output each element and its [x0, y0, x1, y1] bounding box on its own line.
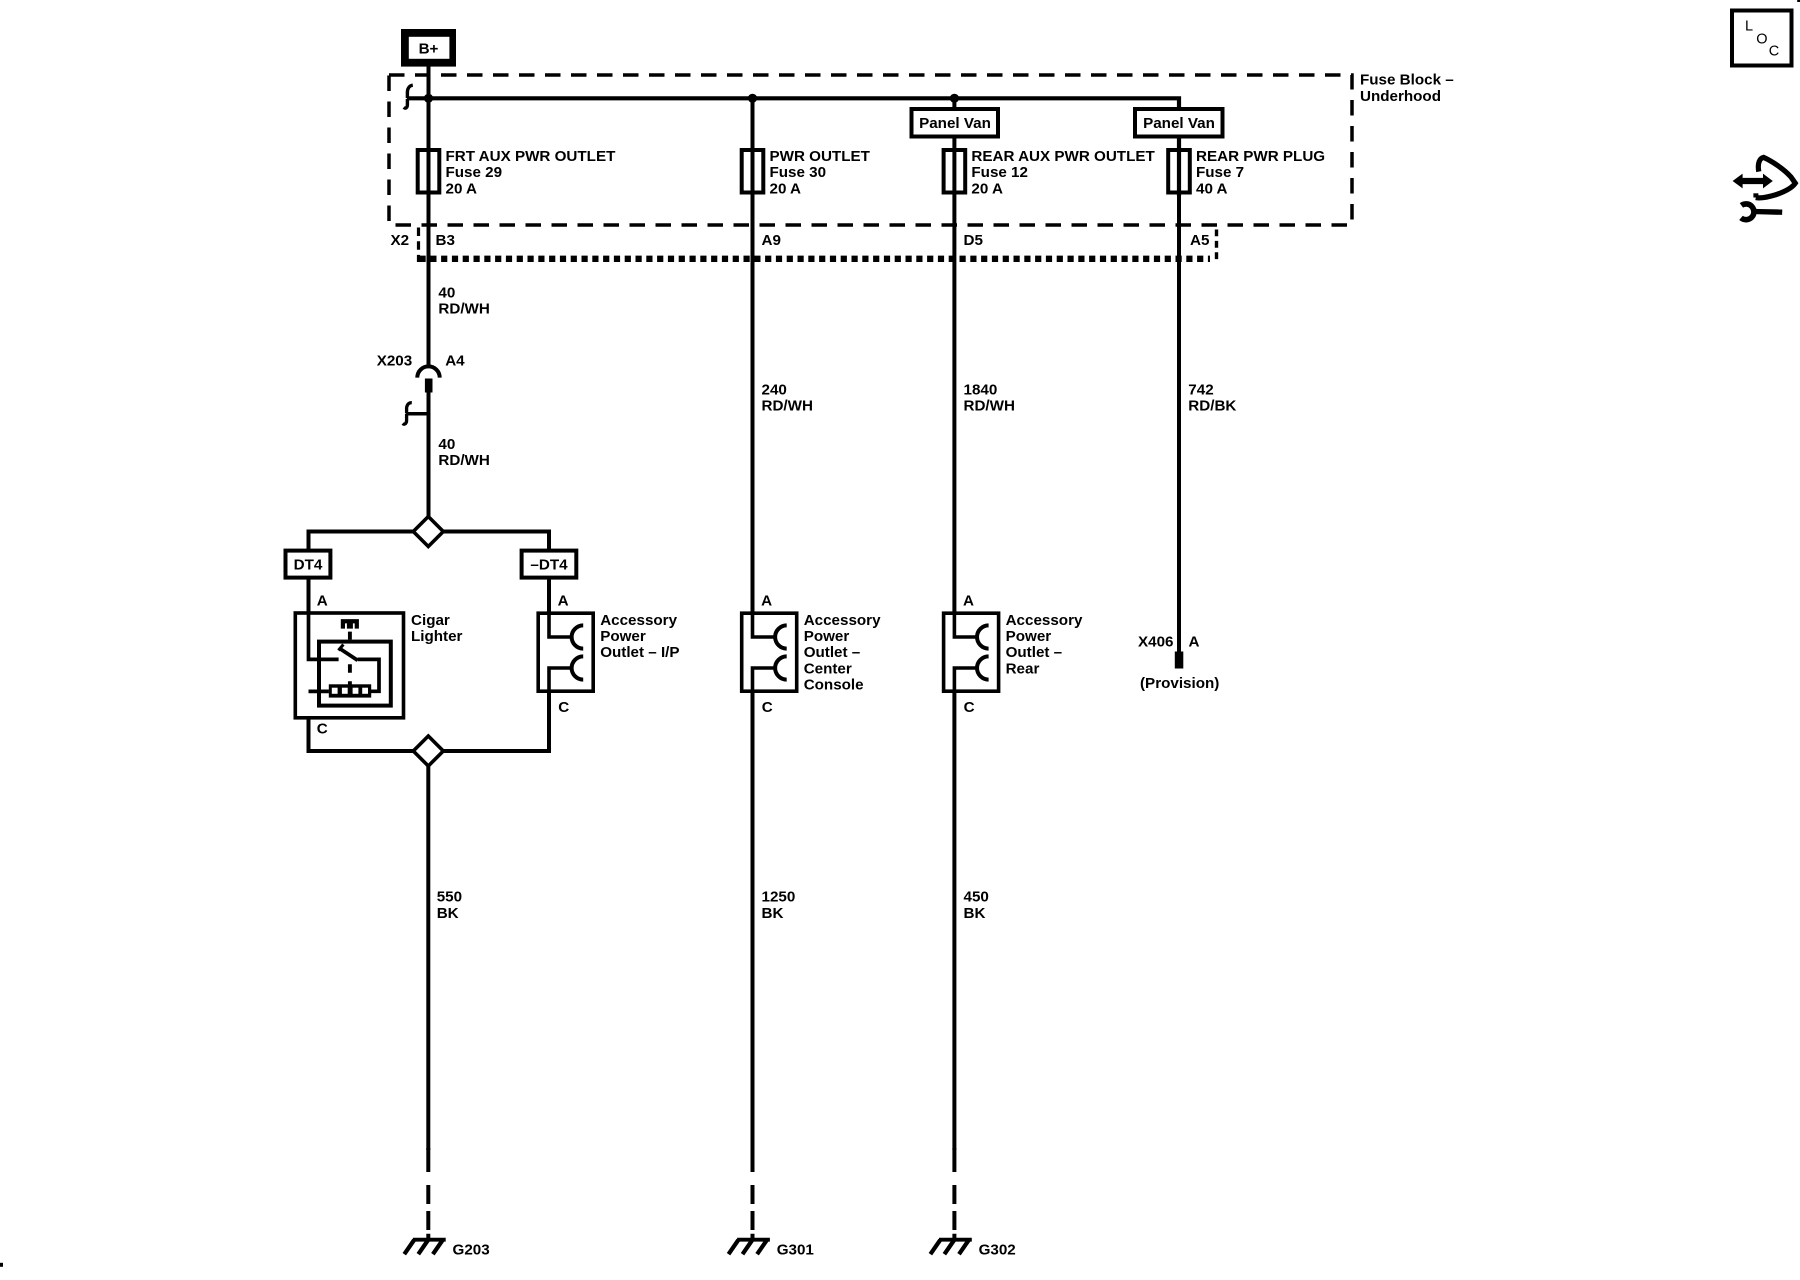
DT4 option tag: [286, 551, 331, 578]
wire 1840 RD/WH circuit through Fuse 12: [952, 98, 956, 613]
svg-text:40: 40: [438, 436, 455, 453]
svg-text:20 A: 20 A: [971, 180, 1003, 197]
wire 240 RD/WH circuit through Fuse 30: [751, 98, 755, 613]
wire circuit 40 RD/WH from B+ through Fuse 29: [427, 62, 431, 366]
svg-text:RD/WH: RD/WH: [438, 452, 489, 469]
wire 742 RD/BK circuit through Fuse 7: [1177, 192, 1181, 652]
stray mark top right: [1797, 0, 1800, 2]
junction dot at B+ wire: [424, 94, 433, 103]
svg-text:DT4: DT4: [294, 556, 323, 573]
svg-text:Fuse 30: Fuse 30: [770, 164, 827, 181]
svg-text:REAR PWR PLUG: REAR PWR PLUG: [1196, 148, 1325, 165]
svg-text:A9: A9: [762, 232, 781, 249]
svg-text:742: 742: [1188, 382, 1213, 399]
svg-text:(Provision): (Provision): [1140, 675, 1219, 692]
splice diamond upper: [413, 517, 443, 547]
connector continuation squiggle at X203: [406, 412, 427, 416]
svg-text:BK: BK: [437, 905, 459, 922]
fuse F12: [944, 150, 966, 193]
svg-text:G203: G203: [453, 1242, 490, 1259]
fuse F29: [418, 150, 440, 193]
junction dot fuse 30 feed: [748, 94, 757, 103]
wire 1250 BK to G301: [751, 691, 755, 1150]
svg-text:C: C: [762, 699, 773, 716]
cigar lighter feed and switch: [309, 613, 339, 659]
ground G302: [952, 1148, 956, 1238]
wire outlet I/P C to lower splice: [443, 691, 549, 751]
svg-text:A5: A5: [1190, 232, 1210, 249]
svg-text:Accessory: Accessory: [1006, 612, 1083, 629]
B+ terminal box: [401, 29, 456, 67]
wire 450 BK to G302: [952, 691, 956, 1150]
svg-text:PWR OUTLET: PWR OUTLET: [770, 148, 871, 165]
svg-text:A: A: [558, 593, 569, 610]
svg-text:20 A: 20 A: [770, 180, 802, 197]
in-line connector X203 pin A4: [417, 366, 439, 377]
svg-text:C: C: [1769, 44, 1779, 60]
svg-text:RD/WH: RD/WH: [762, 398, 813, 415]
svg-text:Console: Console: [804, 677, 864, 694]
svg-text:240: 240: [762, 382, 787, 399]
svg-text:O: O: [1756, 32, 1767, 48]
svg-text:BK: BK: [762, 905, 784, 922]
svg-text:Fuse 7: Fuse 7: [1196, 164, 1244, 181]
svg-text:Lighter: Lighter: [411, 628, 463, 645]
svg-text:1840: 1840: [964, 382, 998, 399]
svg-text:REAR AUX PWR OUTLET: REAR AUX PWR OUTLET: [971, 148, 1155, 165]
svg-text:Fuse 29: Fuse 29: [446, 164, 503, 181]
wire 550 BK to G203: [426, 766, 430, 1150]
svg-text:Rear: Rear: [1006, 660, 1040, 677]
svg-text:1250: 1250: [762, 889, 796, 906]
Panel Van tag for Fuse 12: [912, 109, 999, 137]
svg-text:450: 450: [964, 889, 989, 906]
svg-text:–DT4: –DT4: [530, 556, 568, 573]
svg-text:C: C: [964, 699, 975, 716]
svg-text:B+: B+: [419, 41, 439, 58]
svg-text:RD/WH: RD/WH: [964, 398, 1015, 415]
cigar lighter knob: [341, 619, 359, 629]
connector X2 left dashed separator: [417, 228, 420, 263]
svg-text:FRT AUX PWR OUTLET: FRT AUX PWR OUTLET: [446, 148, 617, 165]
cigar lighter C side wire: [309, 690, 329, 694]
ground G301: [751, 1148, 755, 1238]
svg-text:D5: D5: [964, 232, 984, 249]
svg-text:B3: B3: [436, 232, 455, 249]
fuse block underhood dashed box: [389, 75, 1352, 225]
service icon: double arrow, loop arrow, wrench: [1733, 157, 1796, 219]
accessory power outlet I/P: [538, 613, 593, 691]
cigar lighter heating element: [329, 684, 371, 697]
wire cigar lighter C to lower splice: [309, 718, 414, 751]
fuse F30: [742, 150, 764, 193]
svg-text:L: L: [1745, 19, 1753, 35]
connector X2 dotted interface line: [420, 256, 1211, 262]
svg-text:40: 40: [438, 285, 455, 302]
cigar lighter component: [295, 613, 403, 718]
cigar lighter linkage dashes: [348, 632, 352, 685]
junction dot fuse 12 feed: [950, 94, 959, 103]
svg-text:C: C: [558, 699, 569, 716]
svg-text:A4: A4: [445, 352, 465, 369]
svg-text:Cigar: Cigar: [411, 612, 450, 629]
connector A5 right dotted separator: [1215, 230, 1218, 264]
wire splice branch right to -DT4 / outlet I/P: [443, 532, 549, 551]
svg-text:X406: X406: [1138, 633, 1173, 650]
svg-text:BK: BK: [964, 905, 986, 922]
svg-text:Center: Center: [804, 660, 852, 677]
svg-text:A: A: [317, 593, 328, 610]
svg-text:Power: Power: [600, 628, 646, 645]
wire battery bus from B+: [407, 98, 1179, 196]
svg-text:A: A: [761, 593, 772, 610]
svg-text:X2: X2: [391, 232, 410, 249]
svg-text:Fuse 12: Fuse 12: [971, 164, 1028, 181]
fuse F7: [1168, 150, 1190, 193]
svg-text:X203: X203: [377, 352, 412, 369]
svg-text:Underhood: Underhood: [1360, 88, 1441, 105]
connector X406 provision terminal: [1175, 652, 1184, 669]
svg-text:RD/WH: RD/WH: [438, 301, 489, 318]
svg-text:Accessory: Accessory: [600, 612, 677, 629]
svg-text:RD/BK: RD/BK: [1188, 398, 1236, 415]
svg-text:Fuse Block –: Fuse Block –: [1360, 72, 1454, 89]
splice diamond lower: [413, 736, 443, 766]
current-path continuation squiggle at bus start: [407, 85, 412, 98]
svg-text:A: A: [1189, 633, 1200, 650]
svg-text:Outlet – I/P: Outlet – I/P: [600, 644, 679, 661]
page locator LOC box: [1732, 11, 1792, 66]
accessory power outlet center console: [742, 613, 797, 691]
svg-text:Power: Power: [804, 628, 850, 645]
svg-text:Outlet –: Outlet –: [1006, 644, 1063, 661]
svg-text:A: A: [963, 593, 974, 610]
svg-text:C: C: [317, 721, 328, 738]
svg-text:Panel Van: Panel Van: [919, 115, 991, 132]
svg-text:G302: G302: [979, 1242, 1016, 1259]
svg-text:G301: G301: [777, 1242, 815, 1259]
Panel Van tag for Fuse 7: [1135, 109, 1223, 137]
svg-text:550: 550: [437, 889, 462, 906]
accessory power outlet rear: [944, 613, 999, 691]
svg-text:Panel Van: Panel Van: [1143, 115, 1215, 132]
svg-text:20 A: 20 A: [446, 180, 478, 197]
wire splice branch left to DT4 / cigar lighter: [309, 532, 414, 551]
-DT4 option tag: [522, 551, 577, 578]
svg-text:Accessory: Accessory: [804, 612, 881, 629]
svg-text:40 A: 40 A: [1196, 180, 1228, 197]
svg-text:Outlet –: Outlet –: [804, 644, 861, 661]
ground G203: [426, 1148, 430, 1238]
stray mark bottom left: [0, 1263, 3, 1267]
svg-text:Power: Power: [1006, 628, 1052, 645]
